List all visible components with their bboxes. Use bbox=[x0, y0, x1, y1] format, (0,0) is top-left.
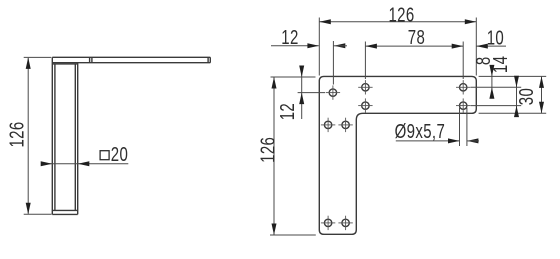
dimension 126 (left view) bottom arrow bbox=[26, 203, 31, 215]
extension line hole A up bbox=[332, 41, 334, 85]
dimension square 20 leader line bbox=[44, 163, 128, 165]
dimension 12 vertical label bbox=[276, 103, 299, 120]
hole A (332.9,92.6) bbox=[326, 85, 340, 99]
dimension 12 vertical line bbox=[301, 66, 303, 119]
dimension 8 line bbox=[491, 66, 493, 98]
tube bottom inner line bbox=[52, 209, 77, 211]
extension line hole column B up bbox=[364, 42, 366, 80]
svg-text:Ø9x5,7: Ø9x5,7 bbox=[395, 120, 446, 143]
dimension 8 bottom arrow bbox=[489, 87, 494, 99]
tube inner left wall bbox=[54, 64, 56, 211]
dimension 8 top arrow bbox=[489, 65, 494, 77]
flat bar bottom edge bbox=[52, 62, 210, 64]
dimension 14 top arrow bbox=[514, 76, 519, 88]
hole I (345.6,222.9) bbox=[338, 216, 352, 230]
dimension 78 left arrow bbox=[365, 44, 377, 49]
dimension 126 (left view height) extension top bbox=[24, 56, 52, 58]
svg-text:30: 30 bbox=[515, 88, 538, 105]
slot width extension left bbox=[459, 108, 461, 146]
dimension square 20 right arrow bbox=[78, 161, 90, 166]
svg-text:126: 126 bbox=[256, 137, 279, 163]
svg-text:78: 78 bbox=[408, 26, 425, 49]
extension line plate bottom edge right bbox=[479, 112, 547, 114]
dimension 78 right arrow bbox=[452, 44, 464, 49]
extension line hole D right bbox=[471, 86, 522, 88]
extension line plate top-left corner left bbox=[271, 76, 316, 78]
dimension 12 top left arrow bbox=[307, 43, 319, 48]
extension line plate top edge right bbox=[479, 75, 547, 77]
dimension 12 top right arrow bbox=[333, 43, 347, 48]
dimension 126 left top arrow bbox=[272, 77, 277, 89]
slot callout leader bbox=[396, 140, 460, 142]
dimension 20 label bbox=[111, 143, 128, 166]
hole C (365.4,105.6) bbox=[358, 98, 372, 112]
dimension 30 bottom arrow bbox=[539, 102, 544, 114]
slot callout arrow right-pointing bbox=[448, 138, 460, 143]
dimension 30 label bbox=[515, 88, 538, 105]
extension line hole A left bbox=[298, 92, 325, 94]
svg-text:126: 126 bbox=[388, 3, 414, 26]
dimension 10 left arrow bbox=[476, 44, 488, 49]
extension line plate bottom left bbox=[270, 234, 316, 236]
dimension 126 (left view) label bbox=[5, 121, 28, 147]
dimension 14 label bbox=[489, 56, 512, 73]
dimension 14 bottom arrow bbox=[514, 106, 519, 118]
dimension 126 top right arrow bbox=[465, 19, 477, 24]
bar right end cap bbox=[208, 57, 210, 62]
square symbol bbox=[100, 151, 109, 160]
extension line plate right edge up bbox=[475, 18, 477, 76]
dimension 126 left line bbox=[273, 78, 275, 235]
hole D (463.2,87.3) bbox=[456, 80, 470, 94]
dimension 78 line bbox=[365, 45, 463, 47]
dimension 30 top arrow bbox=[539, 76, 544, 88]
dimension 10 label bbox=[487, 26, 504, 49]
tube outer right wall bbox=[77, 63, 79, 215]
dimension 126 left bottom arrow bbox=[272, 224, 277, 236]
dimension 14 line bbox=[516, 77, 518, 116]
dimension 8 label bbox=[472, 56, 495, 65]
dimension 12 top leader bbox=[271, 45, 319, 47]
hole F (328.1,124.9) bbox=[321, 118, 335, 132]
dimension square 20 left arrow bbox=[41, 161, 53, 166]
hole E (463.2,105.6) bbox=[456, 98, 470, 112]
svg-text:126: 126 bbox=[5, 121, 28, 147]
slot width extension right bbox=[466, 108, 468, 146]
plate outline bbox=[319, 76, 476, 234]
dimension 126 (left view height) extension bottom bbox=[24, 213, 52, 215]
slot size label bbox=[395, 120, 446, 143]
hole B (365.4,87.3) bbox=[358, 80, 372, 94]
flat bar top edge bbox=[52, 56, 210, 58]
tube inner right wall bbox=[74, 64, 76, 211]
dimension 126 (left view) dimension line bbox=[27, 58, 29, 214]
dimension 126 (left view) top arrow bbox=[26, 57, 31, 69]
slot callout arrow left-pointing bbox=[467, 138, 479, 143]
svg-text:12: 12 bbox=[281, 26, 298, 49]
hole G (345.6,124.9) bbox=[338, 118, 352, 132]
svg-text:20: 20 bbox=[111, 143, 128, 166]
dimension 12 top label bbox=[281, 26, 298, 49]
extension line hole column D up bbox=[462, 42, 464, 80]
bar joint ticks bbox=[90, 57, 92, 62]
dimension 12 vertical bottom arrow bbox=[299, 93, 304, 105]
extension line hole E right bbox=[471, 105, 522, 107]
svg-text:10: 10 bbox=[487, 26, 504, 49]
dimension 12 vertical top arrow bbox=[299, 66, 304, 78]
svg-text:14: 14 bbox=[489, 56, 512, 73]
dimension 126 top line bbox=[319, 21, 476, 23]
extension line plate left edge up bbox=[318, 18, 320, 76]
dimension 30 line bbox=[541, 77, 543, 113]
dimension 126 top left arrow bbox=[319, 19, 331, 24]
hole H (328.1,222.9) bbox=[321, 216, 335, 230]
tube outer left wall bbox=[51, 57, 53, 214]
tube bottom outer line bbox=[52, 213, 77, 215]
dimension 78 label bbox=[408, 26, 425, 49]
dimension 126 left label bbox=[256, 137, 279, 163]
svg-text:12: 12 bbox=[276, 103, 299, 120]
dimension 126 top label bbox=[388, 3, 414, 26]
tube top line bbox=[52, 63, 77, 65]
dimension 10 leader bbox=[476, 45, 506, 47]
